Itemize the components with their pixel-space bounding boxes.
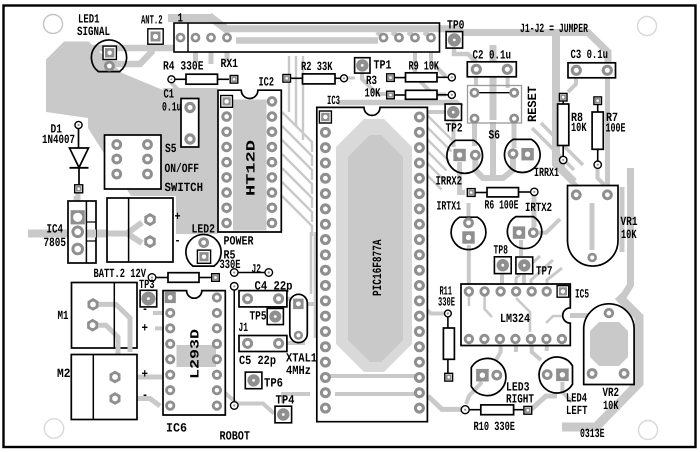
switch S6 (468, 86, 522, 124)
svg-text:IC3: IC3 (327, 94, 340, 108)
IR receiver IRRX2 (447, 140, 483, 173)
IC5 socket LM324 (461, 284, 570, 346)
connector pad (222, 33, 232, 43)
resistor R11 (445, 310, 452, 317)
test point TP7 (516, 257, 533, 274)
svg-text:ANT.2: ANT.2 (141, 14, 163, 28)
svg-text:-: - (142, 389, 148, 403)
trace R10 through (428, 396, 462, 409)
svg-text:7805: 7805 (44, 236, 67, 250)
svg-text:IC2: IC2 (259, 76, 275, 90)
resistor R8 (559, 93, 567, 101)
test point TP1 (355, 58, 370, 73)
svg-text:S6: S6 (489, 129, 501, 143)
traces IC5 to LEDs below (496, 344, 501, 360)
jumper J2 (230, 269, 238, 277)
trace bottom middle (222, 390, 274, 413)
trace IRTX1 down to IC5 (467, 245, 471, 285)
svg-text:R4 330E: R4 330E (163, 60, 204, 74)
trace IRTX2 to VR1 (539, 219, 560, 233)
LED2 (186, 234, 221, 266)
connector strip CON1 (174, 23, 440, 52)
mounting hole bottom-right (639, 421, 658, 440)
svg-text:M1: M1 (58, 309, 69, 323)
traces diag above IC5 (516, 256, 540, 285)
trace second band inside connector (236, 37, 378, 44)
diode D1 (75, 121, 82, 128)
jumper J1 wire (230, 283, 238, 291)
IC6 interior fill (177, 345, 217, 367)
svg-text:R6 100E: R6 100E (485, 199, 519, 213)
test point TP2 (445, 104, 461, 120)
IR transmitter IRTX2 (507, 217, 541, 249)
svg-text:M2: M2 (57, 367, 71, 381)
svg-text:+: + (175, 210, 181, 224)
svg-text:C1: C1 (164, 88, 175, 102)
LED3 (471, 358, 506, 395)
trace right vertical x556 (556, 34, 574, 182)
svg-text:1N4007: 1N4007 (42, 133, 75, 147)
capacitor C2 (467, 62, 516, 77)
svg-text:R2 33K: R2 33K (301, 60, 333, 74)
svg-text:TP8: TP8 (494, 244, 509, 258)
svg-text:TP2: TP2 (446, 122, 463, 136)
trace R7 to VR1 (598, 168, 608, 193)
svg-text:1: 1 (178, 12, 184, 26)
svg-text:PIC16F877A: PIC16F877A (371, 239, 385, 296)
test point TP5 (267, 308, 283, 324)
mounting hole top-left (44, 15, 63, 34)
svg-text:IC4: IC4 (47, 223, 64, 237)
trace C3 left pad to R8 (568, 77, 576, 92)
connector pad (379, 33, 389, 43)
trace IRRX U-link (475, 158, 513, 178)
connector pad (176, 33, 186, 43)
potentiometer VR1 (568, 186, 619, 267)
capacitor C1 (181, 99, 199, 148)
svg-text:C3 0.1u: C3 0.1u (571, 48, 609, 62)
trace TP1 down to R3 (362, 73, 386, 94)
connector pad (206, 33, 216, 43)
test point TP4 (275, 406, 292, 423)
trace LED1 to connector (88, 45, 174, 52)
svg-text:R10 330E: R10 330E (474, 420, 516, 434)
motor connector M1 (72, 283, 138, 349)
svg-text:TP1: TP1 (374, 58, 392, 72)
resistor R10 (461, 406, 469, 414)
test point TP8 (494, 257, 511, 274)
trace diagonals below IRRX1 (532, 128, 574, 170)
svg-text:LEFT: LEFT (566, 404, 588, 418)
trace vertical left x76 (74, 196, 79, 206)
trace R2 to TP1 (347, 77, 355, 80)
resistor R5 (148, 274, 156, 282)
connector pad (394, 33, 404, 43)
connector pad (426, 33, 436, 43)
trace TP4 to IC3 (283, 394, 310, 403)
VR1 interior trace (590, 203, 595, 250)
IC4 7805 (68, 201, 96, 263)
VR2 interior octagon (590, 322, 628, 366)
svg-text:HT12D: HT12D (245, 139, 259, 196)
connector pad (191, 33, 201, 43)
svg-text:RX1: RX1 (221, 57, 239, 71)
copper pour top-left (46, 42, 218, 235)
resistor R7 (594, 97, 602, 105)
svg-text:TP6: TP6 (264, 377, 283, 391)
trace LED1 to ANT.2 (106, 44, 152, 64)
svg-text:TP3: TP3 (139, 278, 155, 292)
antenna pad ANT.2 (148, 29, 163, 44)
trace band above IC3 (338, 103, 462, 108)
trace LED4 pad to band (562, 382, 572, 402)
test point TP6 (245, 372, 262, 389)
svg-text:SIGNAL: SIGNAL (77, 25, 110, 39)
trace S6 to IRRX (472, 122, 477, 146)
LED1 (91, 40, 126, 72)
test point TP3 (140, 290, 157, 307)
IC2 interior fill (233, 100, 267, 231)
svg-text:J2: J2 (252, 262, 262, 276)
svg-text:ROBOT: ROBOT (220, 430, 251, 444)
IC3 interior pale octagon (336, 119, 412, 372)
trace IRTX2 to TP7 (519, 240, 523, 256)
motor connector M2 (71, 355, 137, 420)
svg-text:+: + (142, 368, 149, 382)
trace double band right of VR1 (623, 168, 631, 297)
capacitor C3 (568, 63, 616, 78)
trace TP7 TP8 to IC5 (500, 273, 504, 284)
svg-text:C4 22p: C4 22p (255, 280, 293, 294)
trace R8 to VR1 (563, 163, 576, 192)
traces IC3 bottom interior (330, 374, 420, 378)
trace band inside connector to C3 (226, 25, 460, 32)
switch S5 (105, 135, 162, 189)
svg-text:J1: J1 (239, 321, 249, 335)
test point TP0 (446, 32, 463, 48)
svg-text:TP7: TP7 (536, 265, 553, 279)
svg-text:10K: 10K (365, 87, 381, 101)
resistor R3 (387, 91, 395, 99)
trace IRRX2 to R6 (460, 162, 465, 193)
svg-text:IRRX2: IRRX2 (436, 174, 463, 188)
svg-text:LM324: LM324 (500, 312, 530, 326)
svg-text:0.1u: 0.1u (162, 101, 182, 115)
trace C3 to VR1 (605, 76, 610, 190)
svg-text:4MHz: 4MHz (286, 364, 311, 378)
traces left of IC3 to C4 C5 (310, 232, 313, 294)
svg-text:10K: 10K (571, 121, 587, 135)
svg-text:TP5: TP5 (250, 310, 267, 324)
trace D1 to IC4 (76, 192, 81, 210)
mounting hole bottom-left (44, 419, 63, 438)
traces M1 interior (98, 304, 130, 352)
svg-text:IRTX2: IRTX2 (525, 201, 552, 215)
wide trace around VR2 (562, 296, 639, 427)
resistor R2 (283, 75, 291, 83)
svg-text:S5: S5 (165, 142, 177, 156)
svg-text:0313E: 0313E (580, 427, 605, 441)
IC3 socket PIC16F877A (317, 107, 428, 421)
IC2 socket HT12D (218, 90, 281, 232)
svg-text:10K: 10K (603, 399, 619, 413)
traces connector pads to R9 R3 rings (431, 52, 446, 77)
traces M1 to IC6 stubs (153, 311, 163, 315)
traces M2 to IC6 (120, 375, 163, 380)
svg-text:IRTX1: IRTX1 (437, 200, 462, 214)
trace LED3 pad to R10 (466, 382, 482, 404)
svg-text:C2 0.1u: C2 0.1u (473, 49, 512, 63)
trace TP0 down to C2 (454, 49, 476, 66)
svg-text:R9 10K: R9 10K (409, 60, 440, 74)
svg-text:L293D: L293D (189, 328, 203, 379)
traces below C4 C5 (287, 297, 305, 301)
connector pad (410, 33, 420, 43)
svg-text:TP0: TP0 (447, 19, 465, 33)
svg-text:J1-J2 = JUMPER: J1-J2 = JUMPER (520, 22, 588, 36)
svg-text:POWER: POWER (224, 235, 254, 249)
capacitor C5 (239, 336, 287, 352)
trace R4 ring to C1 (171, 83, 184, 96)
svg-text:RESET: RESET (526, 86, 540, 122)
trace XTAL to IC3 (305, 302, 316, 306)
trace diagonals to connector pads (377, 32, 384, 38)
mounting hole top-right (638, 17, 657, 36)
svg-text:C5 22p: C5 22p (239, 354, 276, 368)
svg-text:IC5: IC5 (575, 287, 589, 301)
IC3 interior inner octagon (348, 135, 403, 362)
resistor R6 (467, 189, 475, 197)
svg-text:ON/OFF: ON/OFF (165, 162, 200, 176)
trace C2 vertical to S6 (490, 45, 497, 120)
svg-text:SWITCH: SWITCH (165, 181, 204, 195)
crystal XTAL1 (290, 294, 308, 342)
trace TP2 to IC3 (427, 110, 446, 114)
trace band above connector (168, 14, 212, 22)
resistor R9 (387, 74, 395, 82)
traces inside IC5 (468, 296, 471, 306)
IR transmitter IRTX1 (451, 217, 486, 249)
resistor R4 (168, 76, 175, 83)
capacitor C4 (239, 291, 287, 307)
svg-text:LED2: LED2 (192, 223, 216, 237)
trace band into connector (209, 16, 230, 32)
trace VR1 pad stubs (574, 200, 578, 210)
trace IC5 to VR2 top (570, 313, 604, 318)
svg-text:100E: 100E (606, 122, 626, 136)
battery terminal block (107, 198, 173, 262)
trace IC4 band (28, 230, 108, 238)
svg-text:+: + (142, 321, 149, 335)
trace R11 to IC3 (422, 306, 446, 314)
svg-text:TP4: TP4 (276, 394, 295, 408)
trace R6 to IRTX2 (532, 196, 537, 227)
IC6 socket L293D (163, 291, 225, 415)
svg-text:-: - (142, 303, 148, 317)
LED4 (539, 357, 572, 393)
svg-text:IC6: IC6 (166, 421, 187, 435)
IR receiver IRRX1 (505, 139, 541, 172)
svg-text:330E: 330E (438, 296, 455, 310)
trace C2 pads stubs (474, 74, 478, 86)
potentiometer VR2 (584, 304, 634, 385)
svg-text:IRRX1: IRRX1 (534, 166, 559, 180)
traces battery block interior (108, 231, 128, 237)
trace stubs connector bottom (193, 52, 198, 62)
svg-text:-: - (175, 234, 181, 248)
svg-text:10K: 10K (621, 228, 637, 242)
trace TP2 down to IRRX2 (452, 120, 456, 147)
svg-text:VR1: VR1 (621, 215, 638, 229)
traces IC2-IC3 bundle (288, 56, 290, 112)
traces right of IC3 diag bundle (424, 112, 454, 142)
